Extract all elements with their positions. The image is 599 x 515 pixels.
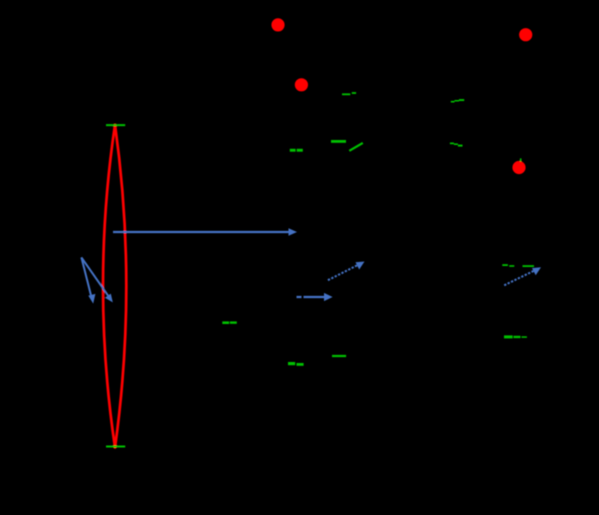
- tick above point P4: [520, 158, 522, 161]
- ray arrow A3 (fan arrow down-right): [81, 257, 112, 302]
- label c (green micro-text): [331, 140, 346, 143]
- point P1 (red dot, upper left-centre): [271, 18, 284, 31]
- label b (green micro-text): [290, 149, 303, 152]
- ray arrow A2 (fan arrow down-left): [81, 257, 95, 303]
- ray arrow A4 (dashed diagonal up-right, centre): [328, 262, 365, 281]
- label g (green micro-text): [222, 321, 237, 324]
- label k (green micro-text): [504, 335, 527, 338]
- lens top edge tick: [106, 124, 125, 126]
- label d (green slanted dash): [349, 143, 363, 151]
- label e (green micro-text, rising): [451, 99, 464, 102]
- point P2 (red dot, below P1): [295, 78, 308, 91]
- label h (green micro-text): [288, 362, 304, 366]
- ray arrow A1 (long horizontal from lens axis): [113, 228, 297, 236]
- label i (green micro-text): [332, 355, 346, 357]
- point P4 (red dot, right side): [512, 161, 525, 174]
- label j (green micro-text, three dashes): [502, 264, 534, 267]
- label a (green micro-text): [342, 92, 356, 95]
- ray arrow A5 (short horizontal dashed, centre): [297, 293, 333, 301]
- lens L1 (biconvex, red outline): [103, 125, 126, 448]
- lens bottom edge tick: [106, 446, 125, 448]
- point P3 (red dot, top right): [519, 28, 532, 41]
- label f (green micro-text, falling): [450, 143, 463, 147]
- ray arrow A6 (diagonal up-right, right side): [504, 267, 541, 285]
